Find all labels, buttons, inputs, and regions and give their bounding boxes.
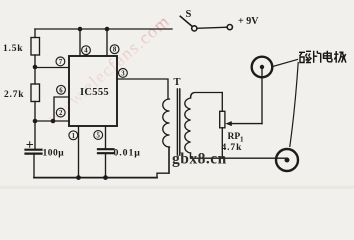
svg-text:2: 2 <box>59 110 63 117</box>
svg-text:4: 4 <box>84 48 88 55</box>
svg-text:0.01μ: 0.01μ <box>114 148 141 159</box>
svg-text:IC555: IC555 <box>80 87 109 98</box>
svg-text:3: 3 <box>121 70 125 77</box>
svg-text:1.5k: 1.5k <box>3 44 23 54</box>
svg-text:RP: RP <box>228 132 241 142</box>
svg-text:8: 8 <box>113 47 117 54</box>
svg-text:S: S <box>186 9 192 20</box>
svg-text:100μ: 100μ <box>43 149 65 159</box>
svg-text:7: 7 <box>59 59 63 66</box>
svg-text:+ 9V: + 9V <box>238 16 259 27</box>
svg-text:5: 5 <box>96 133 100 140</box>
svg-text:6: 6 <box>59 87 63 94</box>
svg-text:gbx8.cn: gbx8.cn <box>172 151 227 168</box>
svg-text:2.7k: 2.7k <box>4 90 24 100</box>
svg-text:1: 1 <box>72 133 76 140</box>
svg-text:T: T <box>174 77 181 88</box>
